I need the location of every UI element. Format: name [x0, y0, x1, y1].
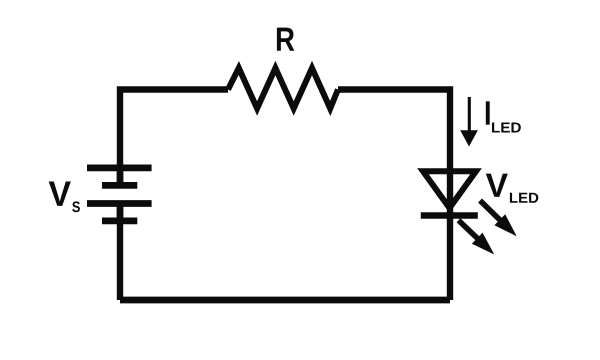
wire: left-bottom segment from battery bottom plate to bottom-left corner — [117, 221, 123, 300]
wire: from resistor to top-right corner down through LED to bottom-right corner — [338, 90, 450, 301]
wire: left-top segment from battery top plate to top-left corner to resistor — [120, 90, 228, 169]
battery V_S: cell 2 long plate — [87, 200, 152, 207]
wire: bottom segment — [120, 297, 450, 304]
label I_LED — [486, 101, 521, 132]
battery V_S: stub plate3 to plate4 — [117, 204, 124, 221]
LED emission arrow 2 (upper) — [480, 201, 517, 237]
resistor R — [228, 68, 338, 109]
label V_LED — [486, 174, 538, 203]
LED D1: cathode bar — [421, 212, 478, 219]
battery V_S: cell 1 short plate — [102, 182, 137, 189]
battery V_S: cell 1 long plate — [87, 164, 152, 171]
LED D1: triangle (anode) — [423, 171, 476, 208]
label V_S — [49, 181, 80, 212]
current arrow I_LED — [460, 97, 478, 147]
battery V_S: stub plate1 to plate2 — [117, 168, 124, 186]
LED emission arrow 1 (lower) — [459, 220, 495, 254]
battery V_S: cell 2 short plate — [102, 217, 137, 224]
label R — [277, 28, 294, 51]
